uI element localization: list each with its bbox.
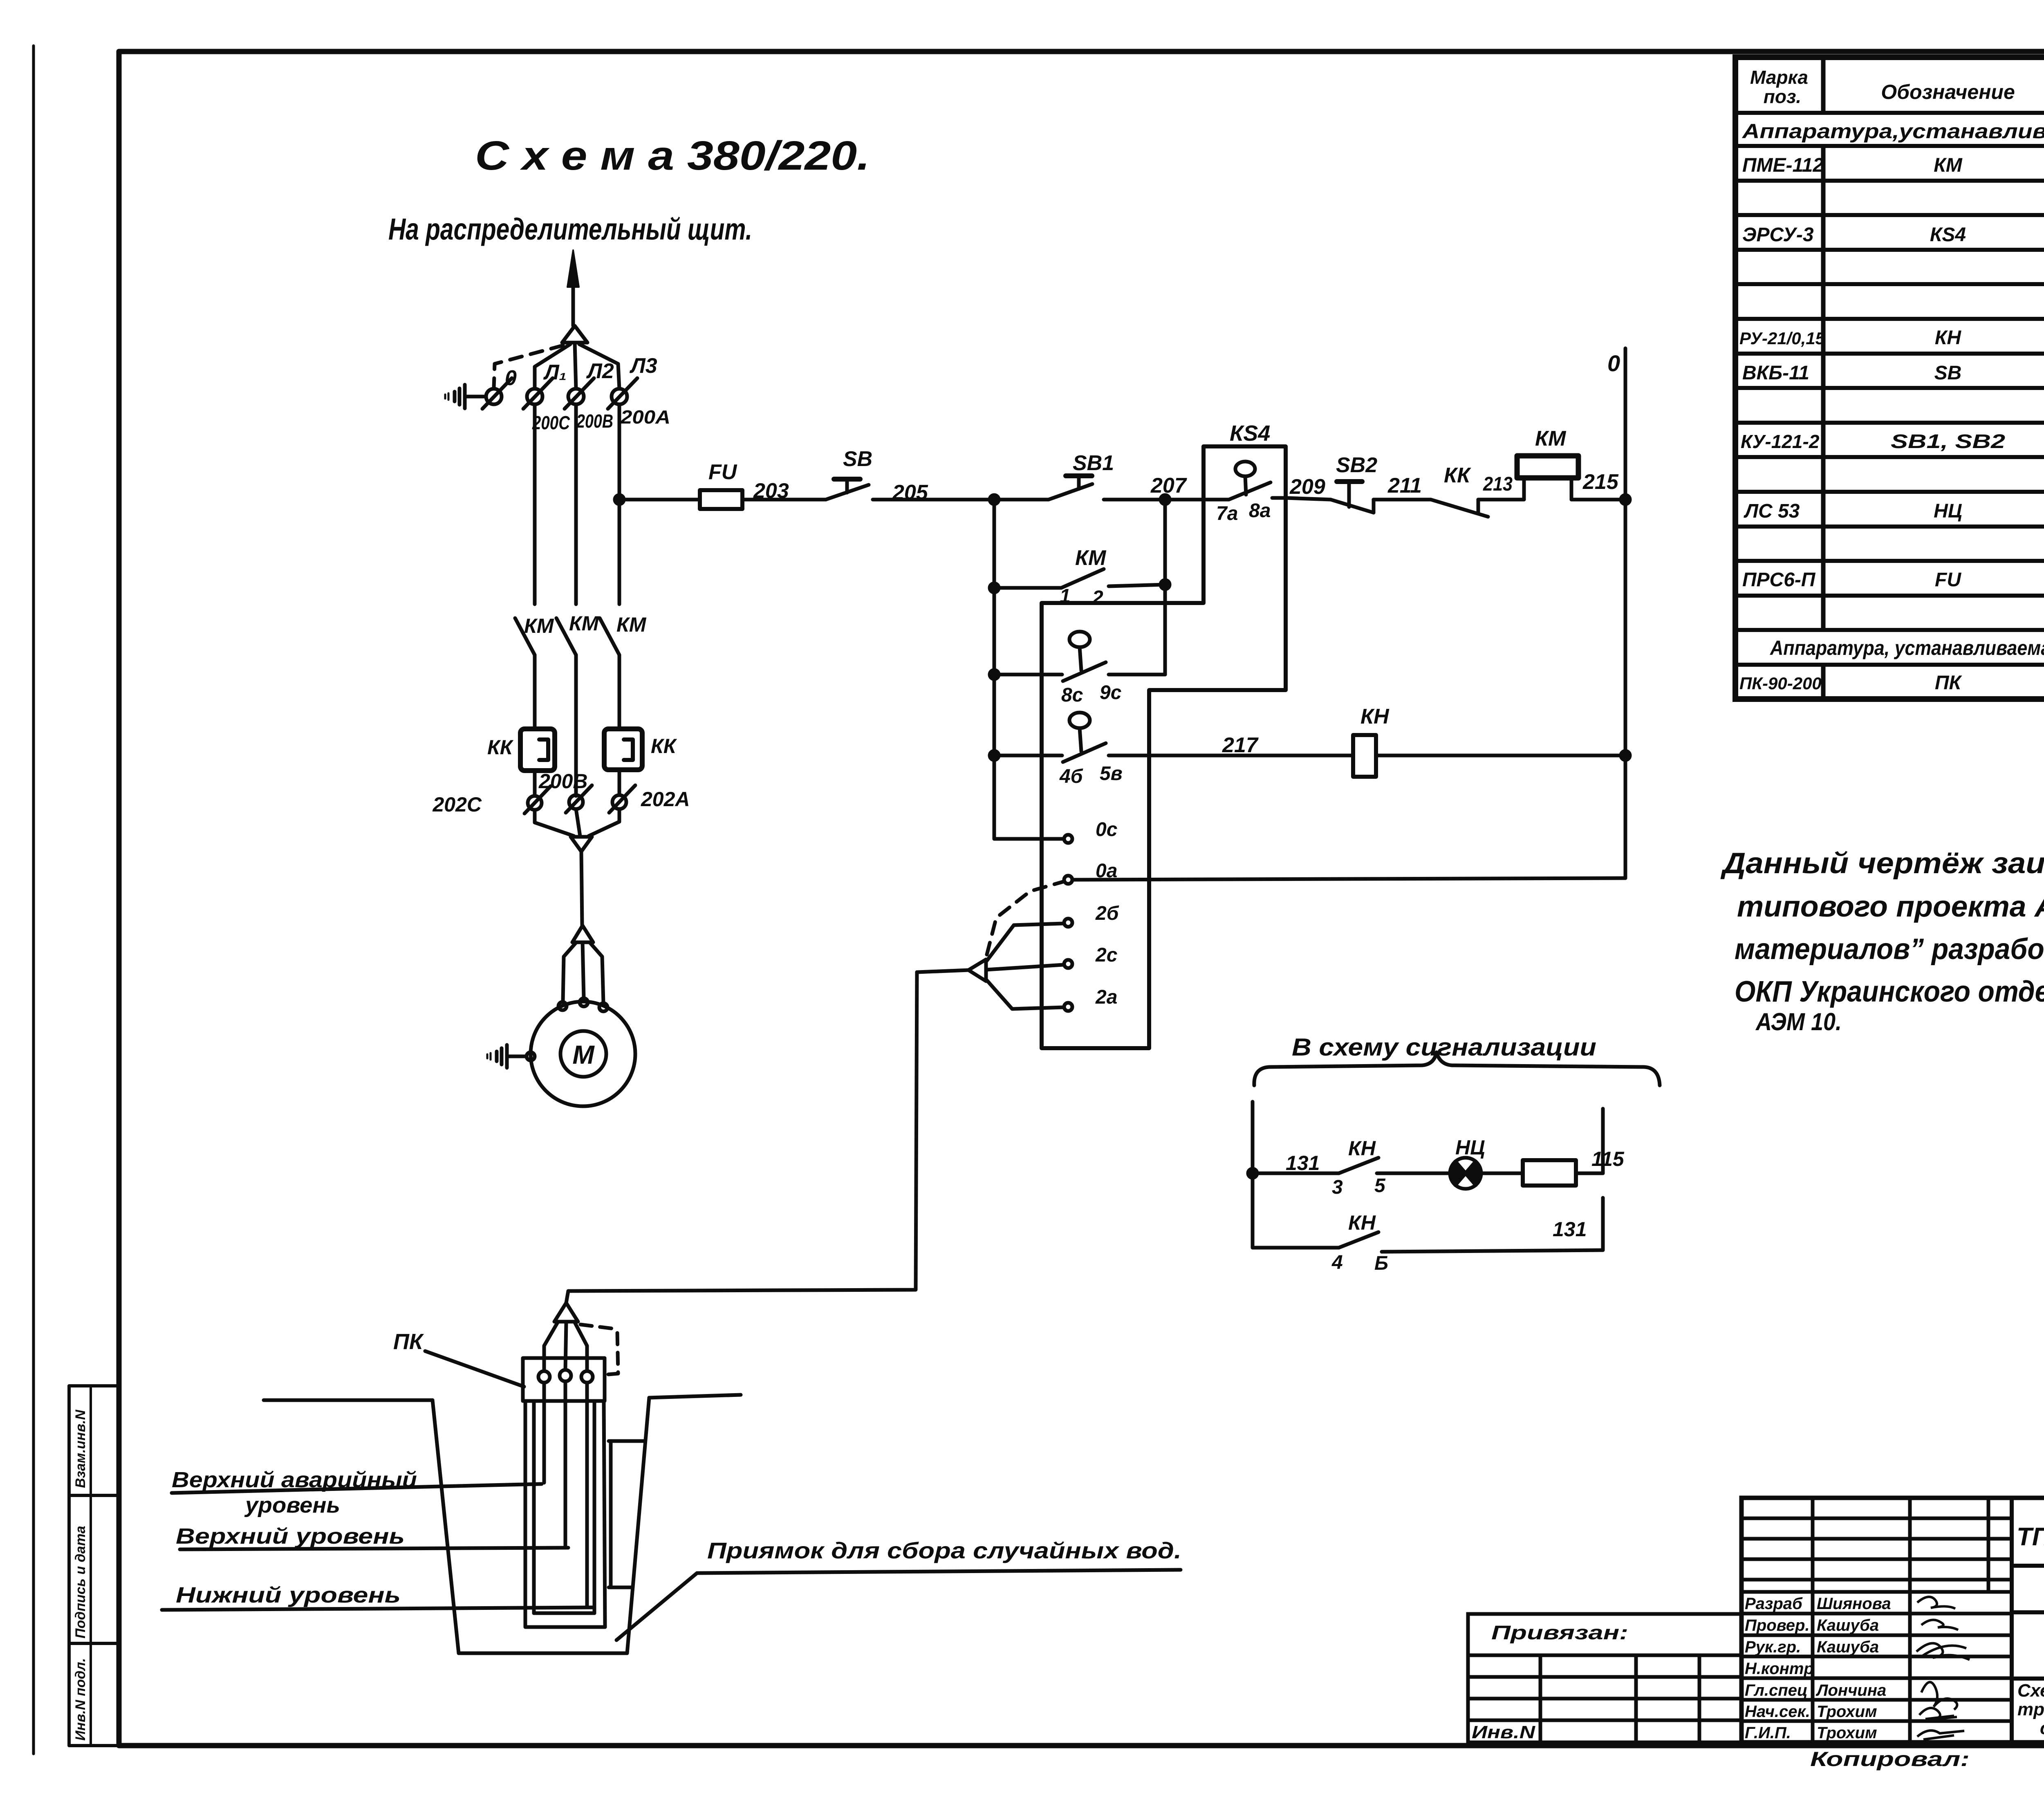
svg-text:203: 203 [753,479,789,503]
svg-text:SВ2: SВ2 [1336,453,1377,477]
svg-text:ЛС 53: ЛС 53 [1744,500,1800,522]
terminal 2a [1064,1003,1072,1011]
svg-text:случайных вод.: случайных вод. [2040,1718,2044,1738]
svg-text:КМ: КМ [616,613,647,636]
fuse circle Л3 [612,389,627,404]
svg-text:Трохим: Трохим [1817,1724,1877,1742]
svg-text:поз.: поз. [1764,86,1801,107]
svg-text:КМ: КМ [569,612,599,635]
wire below right heater [618,770,621,795]
motor M1 outer [531,1002,635,1106]
wire 209 [1286,498,1331,500]
svg-text:КК: КК [487,736,514,759]
thermal relay KK heater right [604,729,642,770]
water level gauge [609,1441,613,1587]
svg-text:209: 209 [1289,475,1325,499]
electrode upper emergency level [542,1383,546,1483]
svg-text:200С: 200С [532,412,570,433]
node 207 [1161,495,1170,504]
cable marker triangle at motor [572,926,593,942]
svg-text:уровень: уровень [244,1493,340,1517]
svg-text:200В: 200В [576,410,613,432]
wire 213 [1478,498,1524,502]
motor feeders [563,943,576,1002]
signature area thin rows [1741,1517,2012,1520]
parts table grid [1735,57,2044,699]
electrode tube outer [524,1401,527,1627]
svg-text:9с: 9с [1100,682,1121,704]
svg-text:0с: 0с [1096,819,1117,841]
svg-text:7а: 7а [1216,503,1238,524]
sheet outer edge line [32,46,35,1754]
table column lines [1821,57,1826,113]
svg-text:1: 1 [1060,585,1071,607]
привязан box [1468,1614,1741,1742]
doc number cell bottom [2012,1564,2044,1568]
wires into junction box [544,1322,558,1370]
dashed spare core to 0a [987,882,1063,955]
upper emergency level leader [172,1484,542,1493]
brace over signal circuit [1254,1052,1660,1085]
svg-text:Аппаратура, устанавливаемая: Аппаратура, устанавливаемая по месту [1769,637,2044,659]
ground at supply [465,395,486,399]
svg-text:202А: 202А [641,788,690,811]
pushbutton SB2 normally closed [1331,500,1374,513]
vertical link at 207 node [1163,500,1167,675]
svg-text:Схема управления элек-: Схема управления элек- [2017,1681,2044,1701]
fuse circle Л1 [527,389,542,404]
contactor KM main contact 1 [515,618,535,655]
wire to SB1 [994,498,1049,502]
svg-text:Приямок для сбора случайных: Приямок для сбора случайных вод. [707,1538,1181,1563]
svg-text:Б: Б [1374,1253,1388,1274]
cable marker triangle down [571,837,592,852]
svg-text:200В: 200В [538,770,588,793]
svg-text:5: 5 [1374,1175,1386,1197]
motor M1 inner [560,1031,606,1077]
svg-text:Гл.спец: Гл.спец [1745,1681,1808,1699]
svg-text:В схему сигнализации: В схему сигнализации [1292,1033,1596,1061]
signature area text rows [1741,1590,2012,1594]
svg-text:ПК-90-200: ПК-90-200 [1739,674,1822,693]
PK terminals [538,1371,550,1383]
svg-text:Трохим: Трохим [1817,1703,1877,1721]
svg-text:8с: 8с [1061,684,1083,706]
svg-text:Данный чертёж заимствован: Данный чертёж заимствован из [1720,847,2044,880]
svg-text:2с: 2с [1095,944,1117,966]
svg-text:КS4: КS4 [1230,421,1270,446]
svg-text:5в: 5в [1100,763,1123,784]
svg-text:Рук.гр.: Рук.гр. [1745,1638,1801,1656]
svg-text:0: 0 [505,366,517,390]
pushbutton SB1 normally open [1049,484,1092,500]
svg-text:207: 207 [1150,474,1187,498]
svg-text:КН: КН [1935,327,1962,349]
terminal 2b [1064,919,1072,927]
svg-text:Нач.сек.: Нач.сек. [1745,1703,1810,1721]
pit left wall [433,1400,459,1653]
wire 215 [1571,498,1625,502]
table row lines [1735,111,2044,115]
svg-text:троприводом насоса: троприводом насоса [2017,1699,2044,1719]
svg-text:КМ: КМ [1535,427,1567,451]
wire 217 [1109,754,1353,758]
svg-text:215: 215 [1582,470,1619,494]
relay contact KN 3-5 [1339,1158,1378,1173]
svg-text:Инв.N подл.: Инв.N подл. [73,1658,88,1741]
svg-text:КМ: КМ [524,614,554,637]
junction box PK [523,1358,605,1401]
svg-text:Взам.инв.N: Взам.инв.N [73,1409,88,1488]
control main wire from L3 to fuse FU [619,498,700,502]
svg-text:КМ: КМ [1934,155,1963,176]
svg-text:8а: 8а [1249,500,1271,522]
svg-text:0: 0 [1607,350,1620,376]
svg-text:КМ: КМ [1075,546,1107,570]
relay contact KN 4-B [1339,1232,1378,1248]
cable marker triangle top [562,326,587,343]
svg-text:2: 2 [1092,587,1103,609]
svg-text:КН: КН [1348,1211,1376,1234]
svg-text:Обозначение: Обозначение [1881,81,2015,103]
KS4 regulator enclosure outline [1042,446,1286,1048]
pit note leader [616,1570,1181,1640]
title block grid [1741,1498,2044,1742]
svg-text:SВ1, SВ2: SВ1, SВ2 [1891,431,2005,453]
svg-text:FU: FU [708,460,737,484]
level sensor contact 8c-9c [990,670,999,679]
svg-text:М: М [572,1040,595,1069]
svg-text:Л₁: Л₁ [543,361,567,384]
signal circuit right wire [1601,1109,1605,1173]
svg-text:3: 3 [1332,1177,1343,1198]
contactor coil KM [1517,456,1578,478]
wire fan from cable marker to fuses [535,344,570,389]
wires converge to cable [535,810,574,836]
svg-text:Л3: Л3 [629,354,657,378]
fuse FU [700,490,742,509]
svg-text:SВ1: SВ1 [1073,451,1114,475]
svg-text:217: 217 [1222,733,1259,757]
cable marker triangle at pit [554,1303,578,1322]
svg-text:Разраб: Разраб [1745,1595,1803,1613]
pushbutton SB normally closed [826,485,869,500]
contactor KM main contact 2 [556,618,576,655]
svg-text:типового проекта А-II-1800,,: типового проекта А-II-1800,,Склад [1737,890,2044,923]
electrode upper level [564,1381,567,1547]
svg-text:КК: КК [651,735,677,758]
svg-text:Подпись и дата: Подпись и дата [73,1526,88,1638]
terminal circle 200B mid [569,795,583,809]
svg-text:ПРС6-П: ПРС6-П [1742,569,1816,591]
signatures squiggles [1916,1597,1970,1739]
svg-text:Шиянова: Шиянова [1817,1595,1891,1613]
wire 211 [1374,498,1431,502]
svg-text:ПК: ПК [393,1329,424,1354]
thermal relay KK heater left [520,729,555,771]
terminal 0a wire to 0 bus [1064,876,1072,884]
dashed spare core at pit [580,1325,618,1374]
cable run to motor [581,852,582,926]
svg-text:ВКБ-11: ВКБ-11 [1742,362,1809,384]
svg-text:0а: 0а [1096,860,1117,882]
pit bottom [459,1652,627,1655]
node on left wire [1248,1169,1257,1178]
svg-text:4: 4 [1331,1252,1343,1273]
cable run to pit junction box [917,970,968,972]
lamp branch wire 131 [1253,1172,1339,1175]
svg-text:Марка: Марка [1750,67,1808,88]
svg-text:материалов” разработанного Ль: материалов” разработанного Львовским [1735,933,2044,966]
wire 115 [1576,1172,1603,1175]
fuse circle Л2 [568,389,584,404]
svg-text:Лончина: Лончина [1815,1681,1886,1699]
wire below left heater [533,771,537,796]
svg-text:Привязан:: Привязан: [1491,1622,1628,1644]
fuse circle 0 [486,389,502,404]
terminal circle 202A [612,795,626,809]
node tap to control circuit [615,495,624,504]
contactor KM main contact 3 [600,618,619,655]
terminal 2c [1064,960,1072,968]
svg-text:Верхний уровень: Верхний уровень [176,1524,405,1549]
svg-text:КК: КК [1444,464,1471,487]
svg-text:ПМЕ-112: ПМЕ-112 [1742,155,1824,176]
signal relay coil KN [1353,735,1376,777]
wire 203 [742,498,826,502]
svg-text:Провер.: Провер. [1745,1616,1810,1634]
svg-text:ЭРСУ-3: ЭРСУ-3 [1742,224,1814,246]
signal lamp HL [1450,1158,1481,1189]
KM auxiliary contact 1-2 [990,583,999,592]
svg-text:НЦ: НЦ [1455,1136,1485,1159]
svg-text:202С: 202С [432,793,482,816]
svg-text:213: 213 [1483,473,1513,495]
stamp column boxes bottom left [69,1386,119,1746]
svg-text:На распределительный щит.: На распределительный щит. [388,212,752,246]
svg-text:Копировал:: Копировал: [1810,1748,1970,1771]
svg-text:РУ-21/0,15: РУ-21/0,15 [1739,329,1825,348]
electrode lower level [585,1383,589,1607]
svg-text:Нижний уровень: Нижний уровень [176,1583,401,1607]
svg-text:115: 115 [1591,1148,1625,1170]
phase wire 200B [574,404,578,604]
svg-text:2а: 2а [1095,986,1117,1008]
svg-text:131: 131 [1286,1152,1320,1174]
svg-text:С х е м а 380/220.: С х е м а 380/220. [475,133,870,179]
signature area column lines [1811,1498,1815,1742]
svg-text:ОКП Украинского отделения „С: ОКП Украинского отделения „Сельэнергопро… [1735,975,2044,1008]
bottom branch wire [1253,1246,1339,1250]
PK label leader [425,1351,524,1387]
pit ground left [264,1399,433,1402]
svg-text:Кашуба: Кашуба [1817,1638,1879,1656]
node after 205 [990,495,999,504]
level sensor contact 4b-5v [990,751,999,760]
svg-text:SВ: SВ [1934,362,1962,384]
left branch vertical [993,500,996,839]
svg-text:Верхний аварийный: Верхний аварийный [172,1468,417,1492]
phase wire 200A [618,404,621,604]
svg-text:Аппаратура,устанавливаемая в ш: Аппаратура,устанавливаемая в шкафу управ… [1741,120,2044,143]
svg-text:205: 205 [892,481,928,504]
signal circuit left wire [1251,1102,1255,1248]
svg-text:Л2: Л2 [586,359,614,383]
phase wire 200C [533,404,537,604]
svg-text:FU: FU [1935,569,1961,591]
wire 205 [873,498,994,502]
motor terminal circles [558,1002,567,1010]
terminal circle 202C [528,796,542,810]
node 215 on 0 bus [1621,495,1630,504]
dashed neutral wire to 0 fuse [494,345,563,388]
svg-text:КН: КН [1348,1137,1376,1160]
svg-text:4б: 4б [1059,766,1083,787]
svg-text:2б: 2б [1095,903,1119,924]
svg-text:КН: КН [1360,705,1390,728]
svg-text:КУ-121-2: КУ-121-2 [1741,431,1820,452]
motor ground terminal [527,1052,535,1060]
lamp series resistor [1481,1172,1523,1175]
svg-text:200А: 200А [620,406,670,428]
electrode tube inner [532,1401,536,1613]
upper level leader [180,1548,568,1549]
feeder arrow to switchboard [572,288,575,326]
svg-text:КS4: КS4 [1930,224,1966,246]
neutral 0 bus [1624,348,1627,878]
svg-text:ТПА-II-600-338.86: ТПА-II-600-338.86 [2017,1523,2044,1551]
svg-text:ПК: ПК [1935,672,1963,694]
cable marker triangle at terminals [968,959,986,981]
pit right wall [627,1398,649,1653]
thermal relay KK break contact [1431,500,1488,517]
svg-text:Кашуба: Кашуба [1817,1616,1879,1634]
svg-text:Г.И.П.: Г.И.П. [1745,1724,1791,1742]
pit ground right [649,1395,741,1398]
lower level leader [162,1607,593,1610]
KS4 sensor contact 7a-8a [1204,498,1229,502]
svg-text:НЦ: НЦ [1934,500,1962,522]
terminal 0c [994,837,1063,841]
wire 207 [1104,498,1204,502]
svg-text:АЭМ 10.: АЭМ 10. [1755,1008,1842,1035]
svg-text:Инв.N: Инв.N [1472,1722,1535,1742]
svg-text:SВ: SВ [843,447,872,471]
svg-text:Н.контр: Н.контр [1745,1660,1814,1678]
svg-text:131: 131 [1553,1218,1587,1241]
svg-text:211: 211 [1387,474,1422,498]
